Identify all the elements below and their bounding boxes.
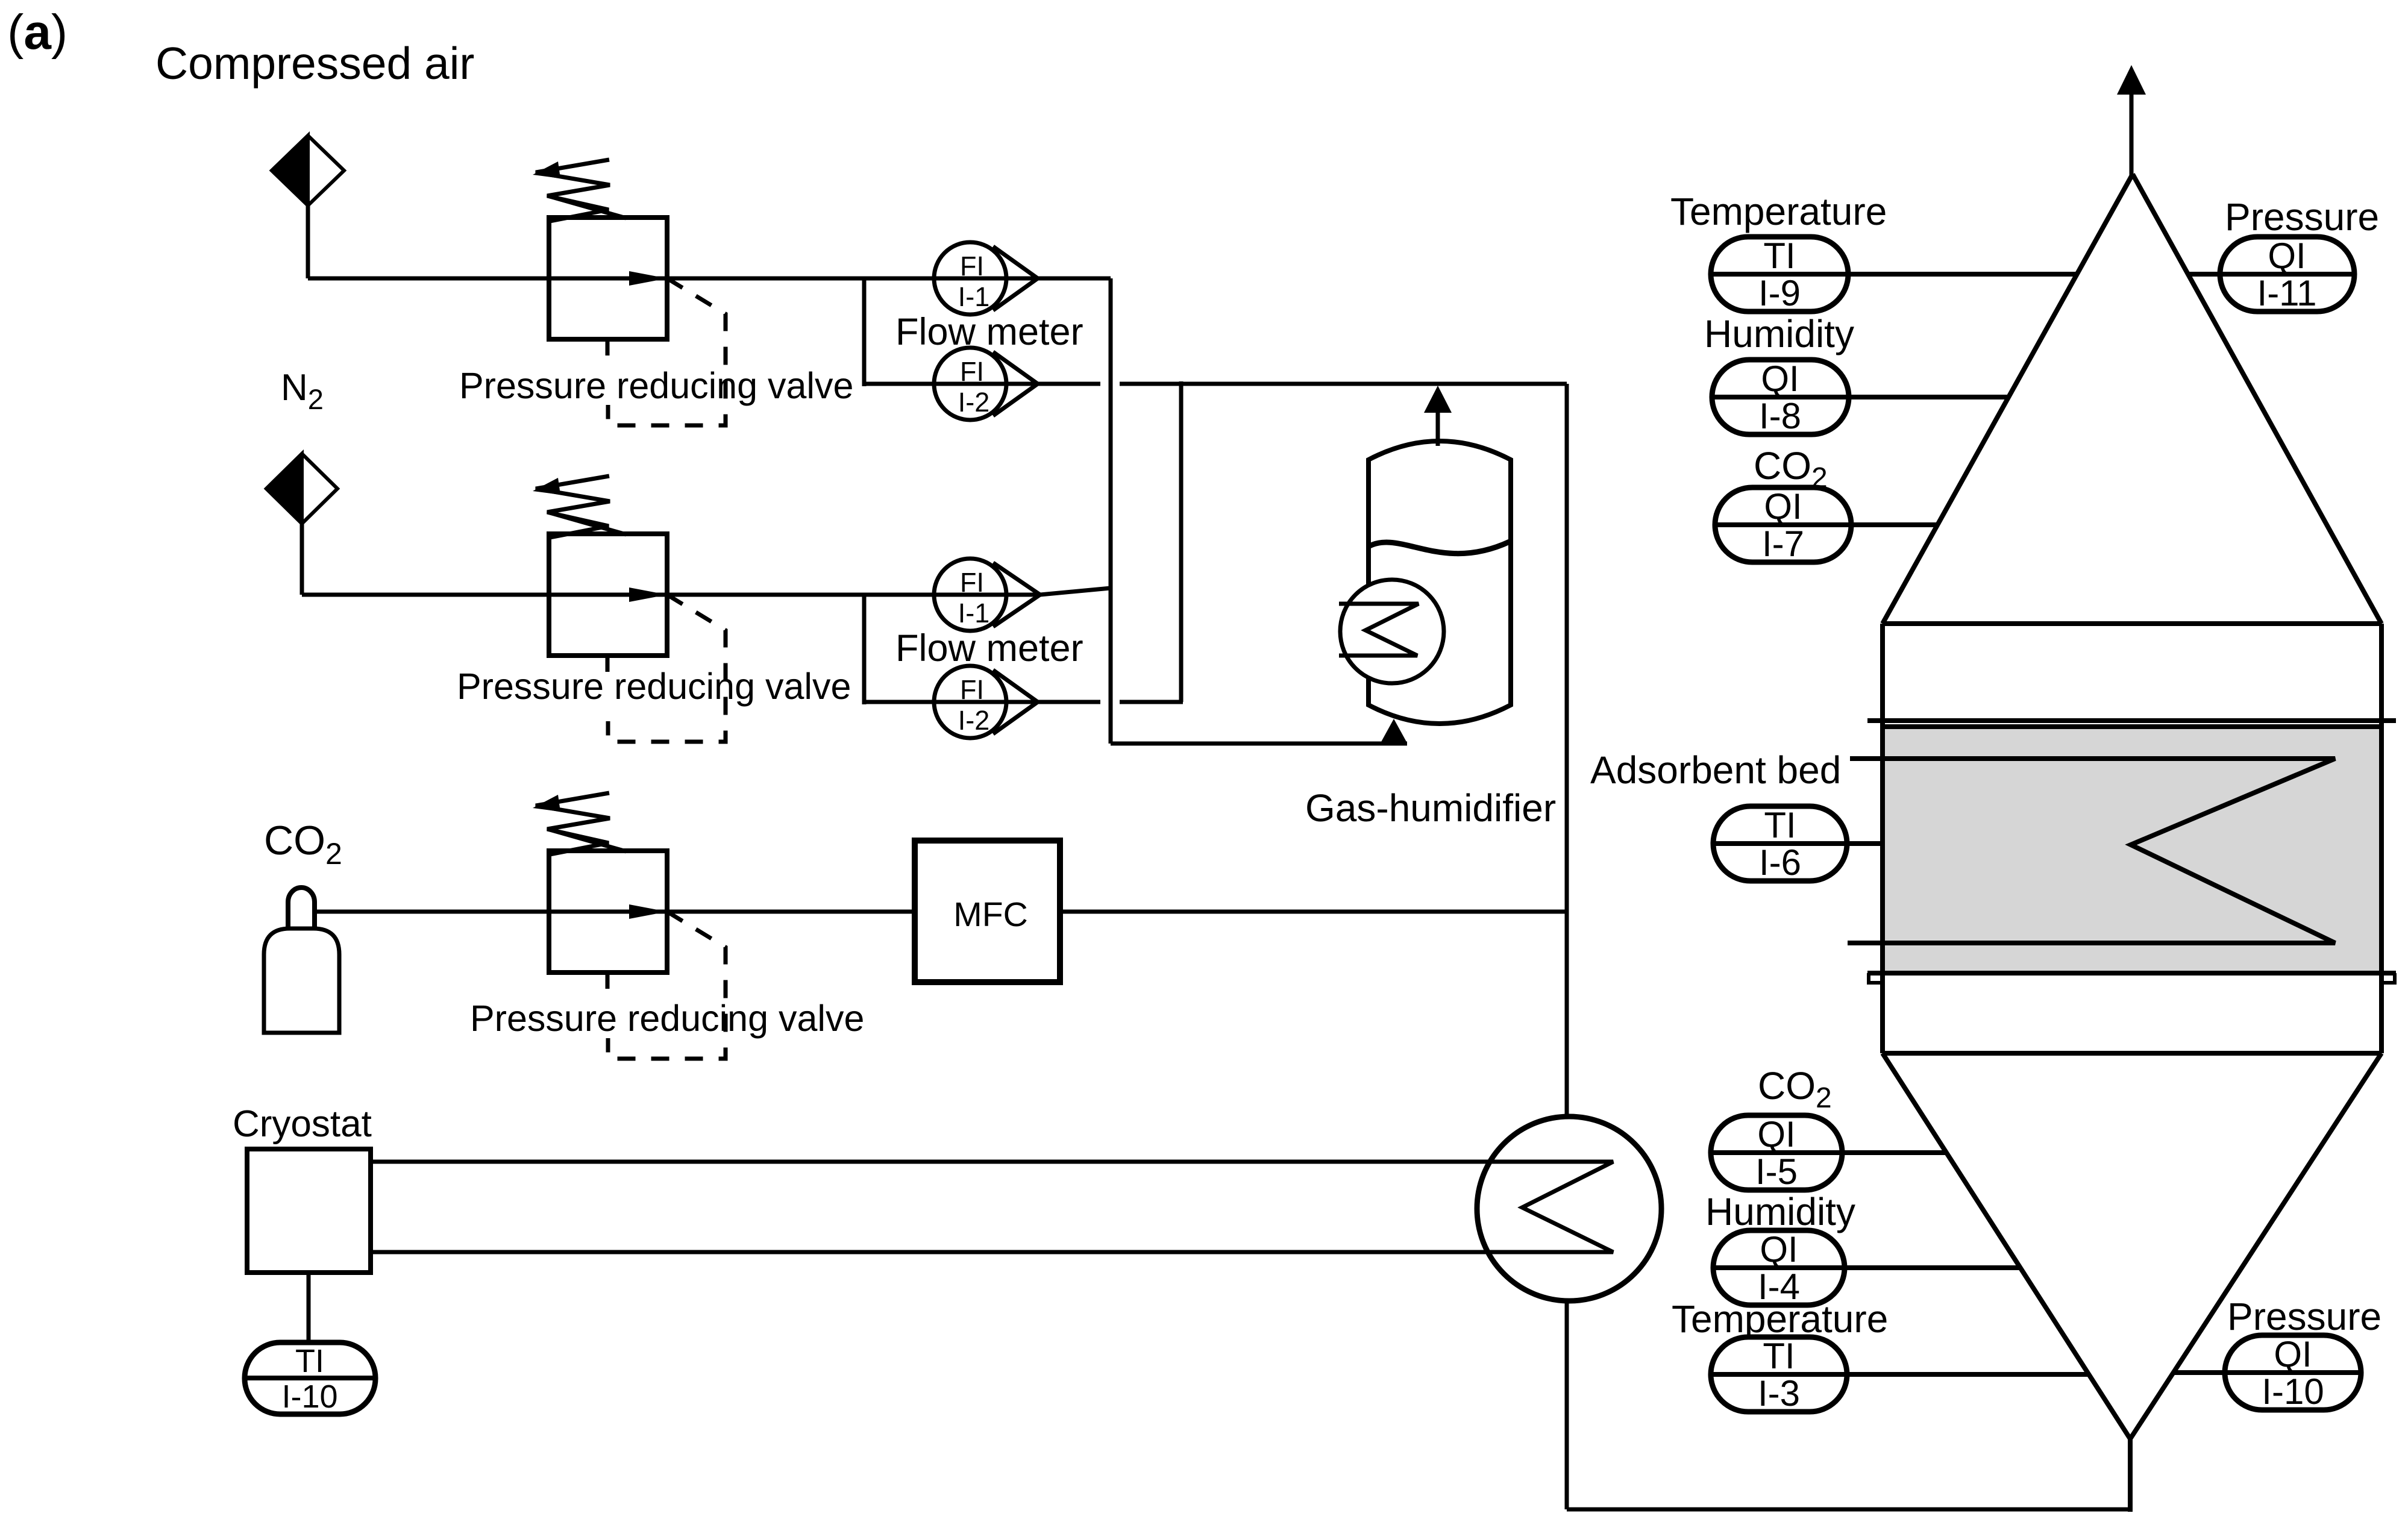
- svg-text:Temperature: Temperature: [1672, 1297, 1888, 1341]
- wire cryostat loop with HX coil: [371, 1162, 1613, 1252]
- wire CO2 to MFC y1513: [315, 910, 915, 914]
- svg-text:I-5: I-5: [1755, 1151, 1798, 1192]
- wire cryostat TI stub: [307, 1273, 311, 1342]
- instrument QI I-5: [1711, 1114, 1946, 1192]
- wire N2 source drop: [300, 524, 304, 595]
- label Pressure reducing valve (air): [459, 365, 853, 406]
- label Pressure reducing valve (CO2): [470, 998, 864, 1039]
- svg-text:Adsorbent bed: Adsorbent bed: [1590, 748, 1841, 792]
- flow meter FI I-2 (air): [934, 348, 1038, 420]
- instrument TI I-9: [1711, 236, 2077, 313]
- svg-text:FI: FI: [960, 356, 984, 387]
- wire MFC to main line: [1060, 910, 1567, 914]
- column top cone: [1883, 174, 2381, 624]
- humidifier outlet arrow: [1424, 386, 1452, 446]
- wire compressed air source drop: [306, 205, 310, 278]
- label Adsorbent bed: [1590, 748, 1841, 792]
- heat exchanger HX: [1477, 1117, 1661, 1301]
- label Humidity (bottom): [1705, 1190, 1855, 1233]
- svg-text:I-8: I-8: [1759, 396, 1801, 436]
- label Flow meter (N2): [895, 627, 1083, 669]
- label N2: [281, 367, 324, 415]
- gas humidifier vessel: [1369, 441, 1511, 724]
- adsorbent bed gray region: [1885, 727, 2379, 973]
- svg-text:I-11: I-11: [2257, 273, 2317, 313]
- wire N2 branch junction x1434: [862, 593, 867, 704]
- label Pressure (bottom): [2227, 1295, 2381, 1338]
- svg-text:Cryostat: Cryostat: [233, 1103, 372, 1145]
- wire N2 main y987: [302, 593, 1040, 597]
- gas humidifier heater: [1339, 580, 1444, 683]
- svg-text:TI: TI: [1763, 1336, 1795, 1376]
- label Flow meter (air): [895, 311, 1083, 353]
- wire air branch junction x1434: [862, 277, 867, 386]
- svg-text:I-2: I-2: [958, 705, 990, 736]
- svg-text:I-2: I-2: [958, 387, 990, 418]
- svg-text:(a): (a): [7, 5, 67, 60]
- instrument QI I-4: [1713, 1229, 2021, 1307]
- svg-text:Humidity: Humidity: [1704, 312, 1854, 355]
- svg-text:MFC: MFC: [953, 895, 1027, 934]
- svg-text:TI: TI: [1763, 236, 1795, 276]
- pressure reducing valve PRV3: [533, 793, 726, 1059]
- svg-text:Gas-humidifier: Gas-humidifier: [1305, 786, 1556, 830]
- instrument QI I-8: [1712, 359, 2008, 436]
- svg-text:QI: QI: [1760, 1229, 1798, 1270]
- label Pressure (top): [2225, 195, 2379, 239]
- svg-text:Pressure reducing valve: Pressure reducing valve: [459, 365, 853, 406]
- svg-text:I-6: I-6: [1759, 842, 1801, 883]
- gas cylinder CO2: [264, 888, 339, 1033]
- label Humidity (top): [1704, 312, 1854, 355]
- svg-text:Flow meter: Flow meter: [895, 627, 1083, 669]
- wire feed line y637 to column: [1120, 382, 1567, 386]
- label CO2 (bottom): [1758, 1064, 1832, 1114]
- wire bottom return y2505: [1567, 1508, 2130, 1512]
- svg-text:FI: FI: [960, 567, 984, 598]
- pressure reducing valve PRV1: [533, 160, 726, 425]
- svg-text:FI: FI: [960, 251, 984, 281]
- svg-text:I-7: I-7: [1762, 524, 1804, 564]
- svg-text:Compressed air: Compressed air: [155, 38, 474, 89]
- svg-text:Temperature: Temperature: [1670, 190, 1887, 233]
- svg-text:I-10: I-10: [281, 1379, 337, 1415]
- svg-text:FI: FI: [960, 674, 984, 705]
- instrument TI I-3: [1711, 1336, 2089, 1414]
- pressure reducing valve PRV2: [533, 476, 726, 742]
- instrument QI I-7: [1715, 486, 1937, 564]
- label CO2 (top): [1754, 444, 1828, 494]
- label CO2: [264, 818, 342, 871]
- svg-text:Pressure reducing valve: Pressure reducing valve: [457, 666, 851, 707]
- svg-text:QI: QI: [1757, 1114, 1795, 1154]
- svg-text:I-9: I-9: [1758, 273, 1801, 313]
- svg-text:QI: QI: [1764, 486, 1802, 527]
- svg-text:I-3: I-3: [1758, 1373, 1800, 1414]
- bed top flange: [1867, 721, 2396, 727]
- source diamond compressed air: [272, 136, 344, 205]
- instrument QI I-10: [2174, 1334, 2361, 1412]
- wire manifold bottom y1234 to humidifier: [1111, 742, 1407, 746]
- column lower cone: [1883, 1053, 2381, 1439]
- svg-text:Flow meter: Flow meter: [895, 311, 1083, 353]
- instrument QI I-11: [2187, 236, 2354, 313]
- svg-text:I-10: I-10: [2262, 1371, 2324, 1412]
- label Temperature (bottom): [1672, 1297, 1888, 1341]
- column tail pipe: [2128, 1439, 2133, 1512]
- svg-text:QI: QI: [2274, 1334, 2312, 1374]
- column vent line: [2130, 95, 2134, 176]
- column shell walls: [1883, 624, 2381, 1053]
- wire manifold vertical x1843: [1109, 278, 1113, 744]
- wire compressed air main y462: [308, 277, 1111, 281]
- svg-text:I-1: I-1: [958, 281, 990, 312]
- svg-text:QI: QI: [1761, 359, 1799, 399]
- wire N2 FI I-2 line y1165: [864, 700, 1100, 704]
- label Compressed air: [155, 38, 474, 89]
- instrument TI I-6: [1713, 805, 1883, 883]
- wire N2 riser x1960: [1179, 381, 1184, 702]
- flow meter FI I-1 (air): [934, 242, 1038, 315]
- svg-text:Pressure: Pressure: [2225, 195, 2379, 239]
- svg-text:QI: QI: [2268, 236, 2306, 276]
- svg-text:Pressure: Pressure: [2227, 1295, 2381, 1338]
- svg-text:TI: TI: [1764, 805, 1796, 845]
- wire air FI I-2 line y637: [864, 382, 1100, 386]
- mass flow controller MFC: [915, 841, 1060, 982]
- bed bottom flange: [1867, 973, 2396, 983]
- instrument TI I-10 (cryostat): [245, 1342, 375, 1415]
- label Temperature (top): [1670, 190, 1887, 233]
- source diamond N2: [266, 454, 337, 524]
- wire main feed vertical x2600 lower: [1565, 1301, 1569, 1509]
- wire main feed vertical x2600 upper: [1565, 384, 1569, 1117]
- label Gas-humidifier: [1305, 786, 1556, 830]
- svg-text:TI: TI: [295, 1343, 324, 1379]
- label Pressure reducing valve (N2): [457, 666, 851, 707]
- flow meter FI I-2 (N2): [934, 666, 1038, 738]
- bed coil zigzag: [1848, 759, 2335, 943]
- svg-text:Pressure reducing valve: Pressure reducing valve: [470, 998, 864, 1039]
- column vent arrow: [2117, 65, 2146, 95]
- flow meter FI I-1 (N2): [934, 559, 1040, 631]
- svg-text:I-1: I-1: [958, 598, 990, 628]
- cryostat box: [247, 1149, 371, 1273]
- label Cryostat: [233, 1103, 372, 1145]
- wire N2 FI I-2 line y1165 right part: [1120, 700, 1183, 704]
- wire N2 FI I-1 outlet slant: [1040, 588, 1111, 595]
- label (a): [7, 5, 67, 60]
- humidifier inlet arrow: [1381, 719, 1407, 743]
- svg-text:Humidity: Humidity: [1705, 1190, 1855, 1233]
